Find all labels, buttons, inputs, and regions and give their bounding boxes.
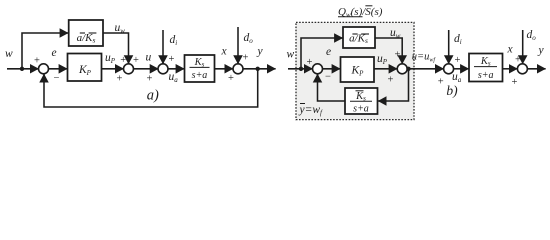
- wire S2a to S3a: [133, 68, 158, 70]
- svg-text:+: +: [307, 57, 313, 68]
- wire S4a to output y: [243, 68, 276, 70]
- svg-text:+: +: [133, 55, 139, 66]
- wire S3a to plant block: [168, 68, 185, 70]
- svg-text:+: +: [228, 73, 234, 84]
- wire S4b to output y (b): [527, 68, 546, 70]
- wire S2b out to S3b: [407, 68, 444, 70]
- wire feedback loop a: [44, 69, 258, 107]
- svg-text:y: y: [257, 46, 264, 58]
- svg-text:+: +: [243, 53, 249, 64]
- svg-text:e: e: [52, 47, 57, 59]
- svg-text:y: y: [538, 45, 545, 57]
- svg-text:+: +: [147, 74, 153, 85]
- block Ks/(s+a) (a): [185, 55, 215, 82]
- node y branch dot: [256, 67, 260, 71]
- summing junction S1a: [39, 64, 49, 74]
- block KP (a): [68, 54, 102, 82]
- svg-text:x: x: [507, 44, 514, 56]
- svg-text:e: e: [326, 46, 331, 58]
- svg-text:+: +: [512, 77, 518, 88]
- wire S1b to KP (b): [322, 68, 340, 70]
- wire plant to S4a: [215, 68, 234, 70]
- wire u_w from block to summing junction S2a: [103, 33, 129, 64]
- svg-text:s+a: s+a: [353, 104, 369, 115]
- svg-text:y=wf: y=wf: [299, 104, 324, 117]
- wire w to summing junction S1b: [288, 68, 313, 70]
- wire d_i input: [162, 30, 164, 64]
- svg-text:+: +: [388, 75, 394, 86]
- wire KP to S2a: [102, 68, 124, 70]
- node branch dot on w line: [20, 67, 24, 71]
- block KP (b): [341, 57, 375, 82]
- wire u branch down to model block: [378, 69, 409, 101]
- svg-text:+: +: [34, 56, 40, 67]
- summing junction S4a: [233, 64, 243, 74]
- svg-text:s+a: s+a: [478, 70, 494, 81]
- wire branch up to feedforward block (b): [301, 38, 343, 69]
- node u branch dot (b): [406, 67, 410, 71]
- block Ks/(s+a) plant (b): [469, 54, 503, 82]
- svg-text:−: −: [325, 72, 331, 83]
- wire KP to S2b: [374, 68, 397, 70]
- svg-text:b): b): [446, 83, 458, 98]
- svg-text:w: w: [5, 48, 13, 60]
- svg-text:+: +: [438, 76, 444, 87]
- dashed controller box: [296, 22, 414, 119]
- svg-text:u: u: [146, 52, 152, 64]
- label y=w_f: [299, 104, 324, 118]
- block Ks/(s+a) model (b): [345, 88, 378, 115]
- summing junction S4b: [517, 64, 527, 74]
- svg-text:+: +: [169, 54, 175, 65]
- summing junction S3b: [444, 64, 454, 74]
- svg-text:−: −: [54, 73, 60, 84]
- summing junction S2a: [124, 64, 134, 74]
- wire S1a to block KP: [48, 68, 67, 70]
- block a/Ks (b): [343, 27, 375, 48]
- summing junction S3a: [158, 64, 168, 74]
- wire d_i input (b): [448, 30, 450, 64]
- block a/Ks (a): [69, 20, 103, 46]
- summing junction S1b: [313, 64, 323, 74]
- svg-text:w: w: [287, 49, 295, 61]
- svg-text:a): a): [147, 87, 159, 103]
- wire S3b to plant (b): [453, 68, 469, 70]
- title Q_w(s)/S(s): [338, 6, 383, 19]
- svg-text:s+a: s+a: [192, 70, 208, 81]
- svg-text:+: +: [117, 74, 123, 85]
- summing junction S2b: [397, 64, 407, 74]
- wire w to summing junction S1a: [7, 68, 39, 70]
- wire plant to S4b: [503, 68, 518, 70]
- wire branch up to feedforward block: [22, 33, 68, 69]
- wire model block to S1b feedback: [318, 74, 346, 101]
- svg-text:+: +: [455, 55, 461, 66]
- svg-text:+: +: [394, 50, 400, 61]
- wire d_o input (b): [522, 30, 524, 64]
- wire d_o input: [237, 27, 239, 64]
- wire u_w block to S2b: [375, 38, 402, 64]
- svg-text:x: x: [221, 46, 228, 58]
- node branch dot on w line (b): [299, 67, 303, 71]
